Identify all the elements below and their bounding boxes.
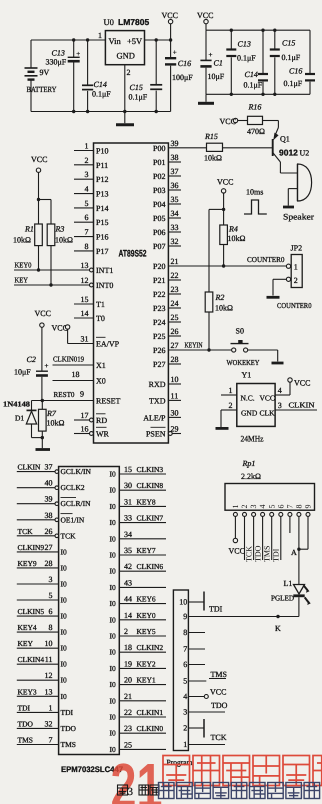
svg-text:KEY1: KEY1 [137, 676, 156, 685]
svg-text:TMS: TMS [211, 670, 227, 679]
svg-text:REST0: REST0 [54, 390, 75, 399]
svg-text:8: 8 [49, 623, 53, 632]
Program pin 6 number [183, 660, 187, 669]
svg-text:3: 3 [49, 575, 53, 584]
svg-text:CLKIN8: CLKIN8 [137, 481, 164, 490]
AT89S52 pin RD [74, 411, 107, 425]
svg-text:38: 38 [45, 511, 53, 520]
svg-text:4: 4 [183, 692, 187, 701]
wire KEY to INT0 [14, 276, 91, 286]
EPM7032 right pin KEY0 [110, 611, 167, 625]
svg-text:I0: I0 [110, 470, 116, 479]
svg-text:I0: I0 [61, 644, 67, 653]
capacitor C14 0.1uF bank [244, 30, 269, 94]
wire Program pin4 VCC [188, 688, 226, 699]
svg-text:25: 25 [171, 313, 179, 322]
EPM7032 left pin pin 38 [17, 511, 85, 525]
svg-text:T1: T1 [96, 300, 105, 309]
svg-text:7: 7 [183, 645, 187, 654]
Rp1 pin terminals [233, 512, 310, 516]
svg-text:I0: I0 [110, 518, 116, 527]
svg-text:KEY: KEY [15, 276, 29, 285]
svg-text:I0: I0 [110, 729, 116, 738]
wire Rp1 pin1 to VCC [233, 516, 237, 542]
wire P26 KEYIN to S0 [168, 341, 231, 351]
svg-text:2.2kΩ: 2.2kΩ [241, 472, 261, 481]
svg-text:X1: X1 [96, 361, 106, 370]
ground decoupling bank [198, 94, 214, 103]
EPM7032 left pin CLKIN9 [17, 543, 67, 557]
VCC supply decoupling bank [197, 11, 213, 30]
svg-text:9: 9 [304, 505, 313, 509]
AT89S52 pin P21 [153, 271, 181, 285]
svg-text:U0: U0 [104, 17, 114, 27]
svg-text:VCC: VCC [162, 11, 178, 20]
svg-text:10: 10 [171, 375, 179, 384]
svg-text:4: 4 [85, 185, 89, 194]
svg-text:I0: I0 [61, 580, 67, 589]
AT89S52 pin INT0 [81, 276, 114, 290]
VCC supply R16 [220, 103, 262, 126]
svg-text:P03: P03 [153, 186, 165, 195]
AT89S52 pin P00 [153, 139, 178, 153]
svg-text:0.1μF: 0.1μF [129, 93, 148, 102]
svg-text:KEY8: KEY8 [137, 497, 156, 506]
svg-text:TCK: TCK [244, 546, 253, 562]
svg-text:OE1/IN: OE1/IN [61, 515, 85, 524]
svg-text:CLKIN: CLKIN [289, 401, 316, 410]
capacitor C13 0.1uF [226, 30, 256, 94]
AT89S52 pin P22 [153, 285, 181, 299]
svg-text:RXD: RXD [149, 380, 166, 389]
svg-text:4: 4 [258, 505, 267, 509]
capacitor C16 0.1uF bank [284, 30, 316, 94]
EPM7032 right pin pin 34 [110, 530, 167, 544]
wire Program pin5 TMS [188, 670, 227, 681]
svg-text:22: 22 [171, 271, 179, 280]
EPM7032 right pin KEY2 [110, 659, 167, 673]
svg-text:17: 17 [81, 411, 89, 420]
svg-text:CLKIN: CLKIN [18, 463, 41, 472]
svg-text:GCLK/IN: GCLK/IN [61, 467, 92, 476]
svg-text:AT89S52: AT89S52 [119, 249, 147, 260]
svg-text:28: 28 [171, 355, 179, 364]
svg-text:8: 8 [183, 628, 187, 637]
svg-text:0.1μF: 0.1μF [284, 79, 303, 88]
wire Program pin8 stub [188, 632, 205, 634]
AT89S52 pin P06 [153, 223, 181, 237]
svg-text:VCC: VCC [217, 178, 233, 187]
VCC supply C2 [35, 309, 51, 371]
switch S0 WOKEKEY [227, 327, 278, 368]
wire D1 to R7 bottom [32, 436, 45, 439]
resistor R16 470ohm [247, 116, 265, 136]
svg-text:EA/VP: EA/VP [96, 340, 120, 349]
svg-text:18: 18 [72, 370, 80, 379]
resistor R7 10k [39, 399, 65, 448]
svg-text:10kΩ: 10kΩ [55, 236, 73, 245]
AT89S52 pin P24 [153, 313, 181, 327]
svg-text:1: 1 [231, 505, 240, 509]
svg-text:Vin: Vin [109, 36, 122, 46]
svg-text:KEY0: KEY0 [15, 261, 32, 270]
svg-text:I0: I0 [61, 676, 67, 685]
svg-text:I0: I0 [61, 660, 67, 669]
wire Program pin9 to LED K [188, 615, 299, 633]
AT89S52 pin P23 [153, 299, 181, 313]
svg-text:28: 28 [45, 559, 53, 568]
svg-text:A: A [291, 548, 297, 557]
wire decoupling top rail [206, 29, 310, 32]
wire R15 to Q1 base [223, 147, 273, 149]
svg-text:37: 37 [45, 463, 53, 472]
svg-text:CLKIN0: CLKIN0 [137, 724, 164, 733]
svg-text:+5V: +5V [127, 36, 143, 46]
svg-text:P20: P20 [153, 262, 165, 271]
connector Program body [167, 590, 194, 767]
diode D1 1N4148 [3, 400, 37, 438]
svg-text:23: 23 [124, 724, 132, 733]
wire Program pin2 TCK [188, 719, 226, 742]
svg-text:Y1: Y1 [242, 371, 252, 380]
svg-text:P13: P13 [96, 190, 108, 199]
IC U1 AT89S52 body [94, 143, 169, 443]
ground JP2 [267, 296, 280, 299]
svg-text:6: 6 [85, 213, 89, 222]
svg-text:TCK: TCK [61, 531, 77, 540]
svg-text:20: 20 [124, 676, 132, 685]
svg-text:P22: P22 [153, 290, 165, 299]
svg-text:GND: GND [117, 51, 135, 61]
EPM7032 right pin pin 25 [110, 740, 167, 754]
svg-text:I0: I0 [110, 567, 116, 576]
Program pin 10 number [179, 598, 187, 607]
EPM7032 right pin KEY8 [110, 497, 167, 511]
watermark 21 red [111, 750, 163, 804]
svg-text:CLKIN5: CLKIN5 [18, 607, 45, 616]
wire VCC to EA/VP [68, 343, 94, 345]
wire VCC jog to R3 [39, 200, 52, 225]
svg-text:2: 2 [229, 401, 233, 410]
svg-text:KEY2: KEY2 [137, 659, 156, 668]
svg-text:VCC: VCC [294, 379, 310, 388]
AT89S52 pin P07 [153, 237, 181, 251]
wire bottom input rail [31, 110, 171, 113]
svg-text:10: 10 [179, 598, 187, 607]
svg-text:C14: C14 [245, 70, 258, 79]
svg-text:I0: I0 [110, 632, 116, 641]
svg-text:P02: P02 [153, 172, 165, 181]
svg-text:Rp1: Rp1 [242, 459, 256, 468]
node A [291, 548, 297, 557]
svg-text:3: 3 [278, 401, 282, 410]
EPM7032 left pin KEY4 [17, 623, 67, 637]
svg-text:TMS: TMS [61, 740, 76, 749]
svg-text:11: 11 [171, 391, 179, 400]
IC U3 EPM7032SLC447 body [59, 467, 120, 755]
svg-text:+: + [209, 51, 213, 59]
EPM7032 left pin pin 3 [17, 575, 67, 589]
AT89S52 pin PSEN [146, 425, 181, 439]
svg-text:P15: P15 [96, 218, 108, 227]
svg-text:X0: X0 [96, 377, 106, 386]
EPM7032 left pin KEY9 [17, 559, 67, 573]
svg-text:10μF: 10μF [208, 72, 225, 81]
wire Program pin7 stub [188, 648, 205, 650]
EPM7032 right pin KEY7 [110, 546, 167, 560]
svg-text:I0: I0 [110, 551, 116, 560]
svg-text:C1: C1 [214, 59, 223, 68]
svg-text:10kΩ: 10kΩ [215, 304, 233, 313]
AT89S52 pin P14 [74, 199, 108, 213]
AT89S52 pin INT1 [81, 261, 114, 275]
svg-text:6: 6 [49, 607, 53, 616]
svg-text:I0: I0 [61, 596, 67, 605]
EPM7032SLC447 label [61, 765, 124, 774]
svg-text:24MHz: 24MHz [241, 434, 264, 444]
svg-text:I0: I0 [110, 534, 116, 543]
AT89S52 pin RXD [149, 375, 181, 389]
svg-text:1: 1 [229, 386, 233, 395]
svg-text:TDO: TDO [61, 724, 77, 733]
svg-text:37: 37 [171, 167, 179, 176]
wire input top rail [31, 38, 105, 41]
resistor R4 10k [220, 209, 246, 267]
svg-text:21: 21 [124, 692, 132, 701]
svg-text:C16: C16 [178, 59, 191, 68]
svg-text:43: 43 [124, 578, 132, 587]
svg-text:I0: I0 [61, 547, 67, 556]
svg-text:I0: I0 [61, 612, 67, 621]
svg-text:I0: I0 [110, 696, 116, 705]
wire R16 to Q1 emitter [263, 121, 279, 128]
svg-text:33: 33 [171, 223, 179, 232]
svg-text:1: 1 [85, 142, 89, 151]
Program pin 5 number [183, 677, 187, 686]
svg-text:VCC: VCC [220, 117, 236, 126]
svg-text:15: 15 [81, 295, 89, 304]
svg-text:1N4148: 1N4148 [3, 400, 30, 409]
svg-text:P00: P00 [153, 144, 165, 153]
svg-text:CLKIN4: CLKIN4 [18, 655, 45, 664]
svg-text:0.1μF: 0.1μF [92, 90, 111, 99]
EPM7032 left pin TCK [17, 527, 76, 541]
svg-text:16: 16 [81, 425, 89, 434]
svg-text:I0: I0 [110, 664, 116, 673]
svg-text:5: 5 [267, 505, 276, 509]
watermark red outline characters [163, 756, 322, 786]
svg-text:TCK: TCK [211, 733, 227, 742]
svg-text:INT1: INT1 [96, 266, 113, 275]
svg-text:29: 29 [171, 425, 179, 434]
EPM7032 right pin CLKIN1 [110, 708, 167, 722]
svg-text:I0: I0 [110, 648, 116, 657]
svg-text:9: 9 [80, 390, 84, 399]
capacitor C2 10uF [14, 355, 49, 401]
svg-text:25: 25 [124, 740, 132, 749]
svg-text:2: 2 [124, 627, 128, 636]
svg-text:9: 9 [183, 612, 187, 621]
svg-text:13: 13 [81, 261, 89, 270]
EPM7032 left pin KEY [17, 639, 67, 653]
battery BT1 9V [25, 40, 57, 112]
svg-text:CLKIN3: CLKIN3 [137, 465, 164, 474]
svg-text:R15: R15 [204, 132, 218, 141]
svg-text:9V: 9V [40, 68, 50, 77]
svg-text:32: 32 [45, 719, 53, 728]
Program pin 9 number [183, 612, 187, 621]
wire U0 output [145, 38, 173, 41]
wire CLKIN0 to X1 [53, 355, 94, 366]
svg-text:35: 35 [171, 195, 179, 204]
svg-text:WOKEKEY: WOKEKEY [227, 358, 260, 367]
svg-text:Speaker: Speaker [283, 212, 314, 222]
svg-text:BATTERY: BATTERY [27, 85, 57, 94]
svg-text:VCC: VCC [35, 309, 51, 318]
svg-text:27: 27 [45, 543, 53, 552]
svg-text:7: 7 [286, 505, 295, 509]
svg-text:23: 23 [171, 285, 179, 294]
svg-text:KEY4: KEY4 [18, 623, 37, 632]
svg-text:GCLR/IN: GCLR/IN [61, 499, 92, 508]
node COUNTER0 label [277, 301, 312, 310]
svg-text:K: K [275, 624, 281, 633]
svg-text:T0: T0 [96, 314, 105, 323]
svg-text:TCK: TCK [18, 527, 34, 536]
AT89S52 pin X0 [96, 377, 106, 386]
svg-text:33: 33 [124, 514, 132, 523]
svg-text:N.C.: N.C. [241, 394, 255, 403]
capacitor C15 0.1uF bank [270, 30, 301, 94]
svg-text:6: 6 [183, 660, 187, 669]
svg-text:D1: D1 [15, 414, 24, 423]
svg-text:1: 1 [183, 740, 187, 749]
ground speaker [283, 206, 294, 209]
LED L1 PGLED [271, 549, 311, 616]
svg-text:2: 2 [240, 505, 249, 509]
AT89S52 pin P27 [153, 355, 181, 369]
svg-text:KEYIN: KEYIN [185, 341, 203, 350]
EPM7032 right pin pin 43 [110, 578, 167, 592]
svg-text:RESET: RESET [96, 397, 121, 406]
wire Y1 pin2 to ground [221, 401, 237, 427]
svg-text:9012: 9012 [279, 148, 298, 158]
svg-text:0.1μF: 0.1μF [244, 81, 263, 90]
svg-text:34: 34 [124, 530, 132, 539]
svg-text:U2: U2 [300, 149, 310, 158]
svg-text:P05: P05 [153, 214, 165, 223]
svg-text:P01: P01 [153, 158, 165, 167]
svg-text:TDI: TDI [209, 605, 223, 614]
svg-text:R4: R4 [228, 225, 238, 234]
svg-text:1: 1 [49, 703, 53, 712]
svg-text:8: 8 [295, 505, 304, 509]
svg-text:CLKIN1: CLKIN1 [137, 708, 164, 717]
capacitor C13 330uF [46, 40, 81, 112]
resistor R3 10k [47, 224, 73, 287]
svg-text:1: 1 [98, 31, 102, 40]
svg-text:CLKIN6: CLKIN6 [137, 562, 164, 571]
svg-text:14: 14 [81, 309, 89, 318]
capacitor C15 0.1uF [129, 40, 163, 112]
capacitor C16 100uF [165, 40, 193, 112]
svg-text:TDO: TDO [253, 545, 262, 562]
svg-text:14: 14 [124, 611, 132, 620]
svg-text:TDO: TDO [211, 701, 228, 710]
svg-text:CLKIN019: CLKIN019 [53, 355, 84, 364]
EPM7032 left pin TDO [17, 719, 77, 733]
AT89S52 pin P26 [153, 341, 178, 355]
svg-text:12: 12 [81, 276, 89, 285]
svg-text:P06: P06 [153, 228, 165, 237]
svg-text:11: 11 [45, 655, 53, 664]
wire U0 pin2 to ground rail [124, 65, 126, 112]
svg-text:P14: P14 [96, 204, 108, 213]
VCC supply Y1 [288, 378, 311, 388]
svg-text:8: 8 [85, 242, 89, 251]
resistor network Rp1 2.2k [225, 459, 315, 510]
svg-text:I0: I0 [61, 628, 67, 637]
Program pin 4 number [183, 692, 187, 701]
svg-text:I0: I0 [110, 502, 116, 511]
svg-text:C15: C15 [282, 39, 295, 48]
EPM7032 left pin CLKIN [17, 463, 92, 477]
EPM7032 right pin KEY6 [110, 595, 167, 609]
wire Rp1 pins 2-6 JTAG [245, 516, 281, 560]
Rp1 JTAG labels [244, 545, 280, 562]
svg-text:INT0: INT0 [96, 281, 113, 290]
svg-text:36: 36 [171, 181, 179, 190]
svg-text:GCLK2: GCLK2 [61, 483, 85, 492]
svg-text:39: 39 [171, 139, 179, 148]
EPM7032 right pin CLKIN8 [110, 481, 167, 495]
svg-text:10kΩ: 10kΩ [204, 154, 222, 163]
Program pin 1 number [183, 740, 187, 749]
svg-text:C13: C13 [238, 40, 251, 49]
Program pin 7 number [183, 645, 187, 654]
Program pin 2 number [183, 724, 187, 733]
oscillator Y1 24MHz [237, 371, 275, 444]
wire Program pin10 TDI [188, 592, 222, 614]
EPM7032 right pin CLKIN0 [110, 724, 167, 738]
svg-text:KEY0: KEY0 [137, 611, 156, 620]
regulator U0 LM7805 [98, 17, 149, 77]
AT89S52 pin P02 [153, 167, 181, 181]
figure caption [118, 785, 160, 798]
VCC supply Rp1 [229, 547, 245, 556]
svg-text:39: 39 [45, 495, 53, 504]
speaker [280, 164, 314, 222]
svg-text:32: 32 [171, 237, 179, 246]
wire JP2 pin2 to ground [273, 279, 286, 295]
svg-text:Q1: Q1 [280, 135, 290, 144]
svg-text:I0: I0 [110, 583, 116, 592]
wire Rp1 pin9 to node A [299, 516, 308, 549]
svg-text:27: 27 [171, 341, 179, 350]
svg-text:6: 6 [276, 505, 285, 509]
svg-text:PGLED: PGLED [271, 594, 295, 603]
EPM7032 left pin KEY3 [17, 687, 67, 701]
svg-text:CLKIN7: CLKIN7 [137, 514, 164, 523]
svg-text:10kΩ: 10kΩ [228, 234, 246, 243]
AT89S52 pin P20 [153, 257, 178, 271]
ground reset network [36, 448, 51, 451]
svg-text:30: 30 [171, 408, 179, 417]
AT89S52 pin P04 [153, 195, 181, 209]
svg-text:44: 44 [124, 595, 132, 604]
svg-text:2: 2 [85, 156, 89, 165]
svg-text:R3: R3 [55, 225, 65, 234]
